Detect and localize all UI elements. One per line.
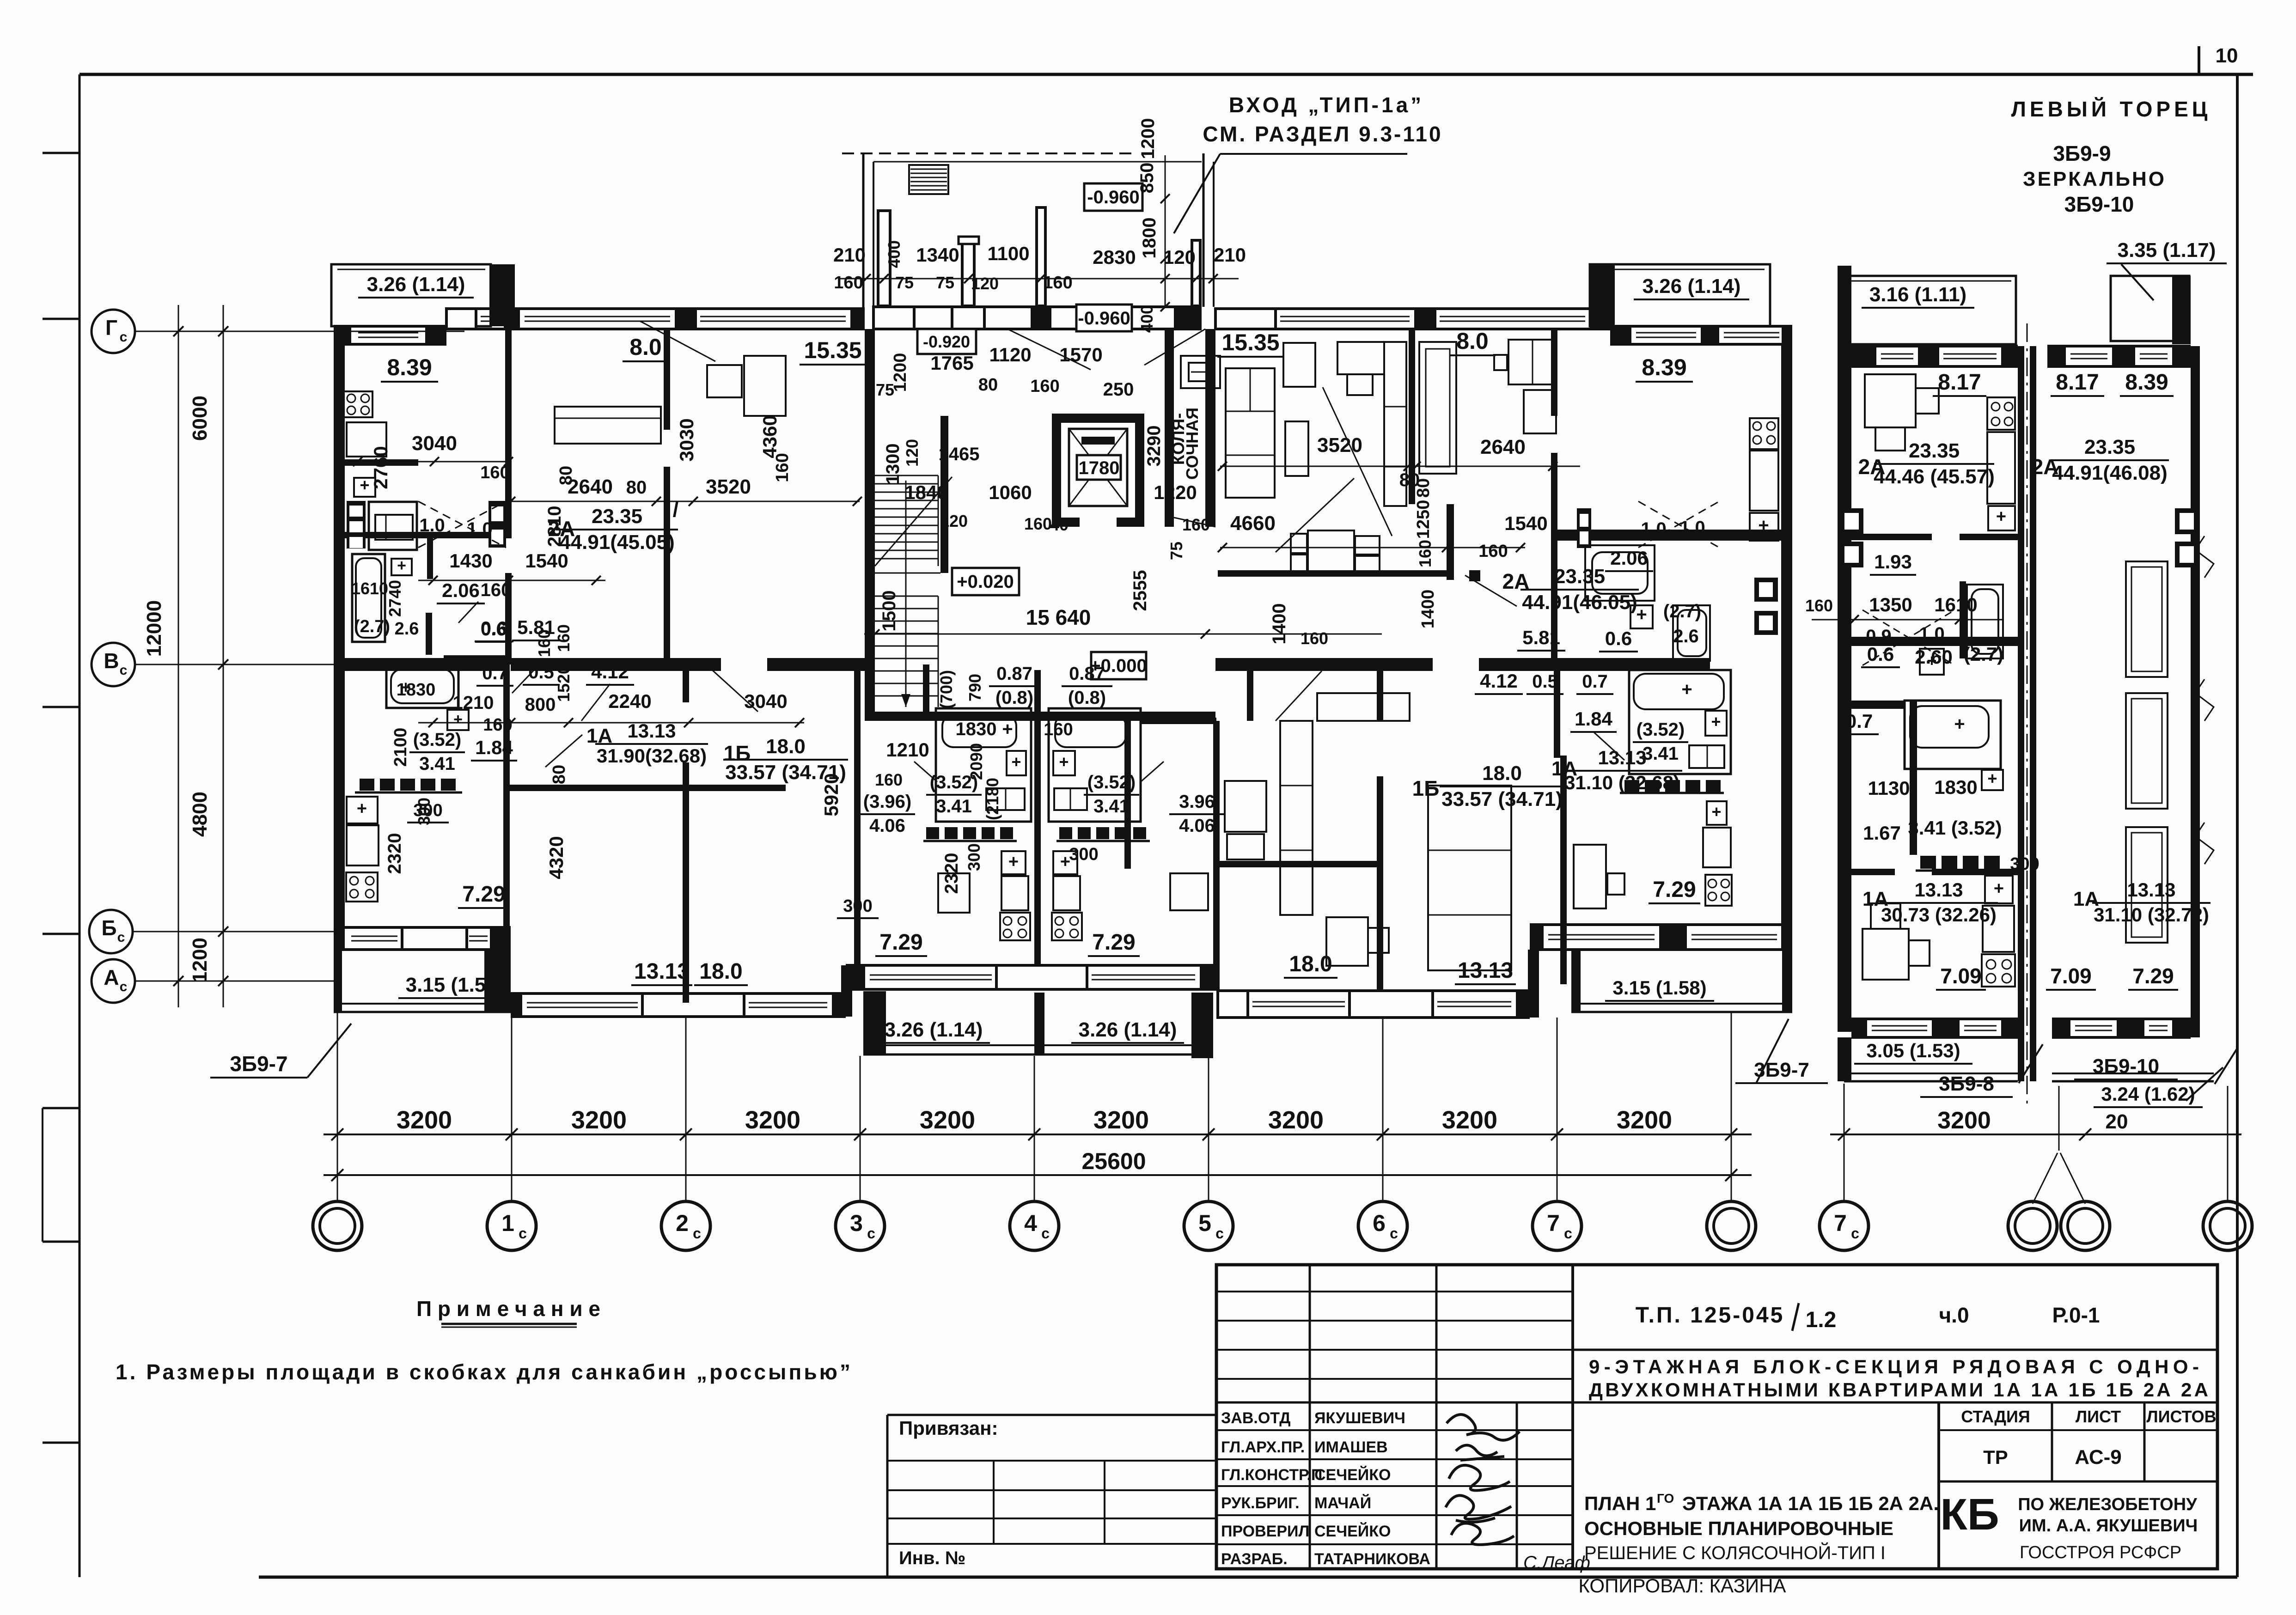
svg-text:(3.96): (3.96) bbox=[863, 792, 912, 812]
svg-text:РАЗРАБ.: РАЗРАБ. bbox=[1221, 1550, 1288, 1568]
svg-text:1120: 1120 bbox=[989, 344, 1031, 366]
svg-text:+: + bbox=[357, 799, 367, 818]
svg-text:160: 160 bbox=[1043, 273, 1072, 293]
svg-text:1.93: 1.93 bbox=[1874, 551, 1912, 573]
svg-text:ТАТАРНИКОВА: ТАТАРНИКОВА bbox=[1314, 1550, 1430, 1568]
svg-text:160: 160 bbox=[480, 463, 509, 482]
svg-text:ОСНОВНЫЕ ПЛАНИРОВОЧНЫЕ: ОСНОВНЫЕ ПЛАНИРОВОЧНЫЕ bbox=[1584, 1517, 1893, 1539]
svg-text:1830: 1830 bbox=[956, 719, 997, 739]
svg-text:80: 80 bbox=[550, 765, 569, 784]
svg-text:160: 160 bbox=[834, 273, 863, 293]
svg-text:23.35: 23.35 bbox=[1909, 439, 1960, 462]
svg-text:Р.0-1: Р.0-1 bbox=[2052, 1303, 2100, 1327]
svg-text:с: с bbox=[867, 1225, 875, 1242]
svg-text:300: 300 bbox=[415, 798, 434, 825]
svg-text:1780: 1780 bbox=[1079, 458, 1120, 478]
svg-text:с: с bbox=[117, 930, 125, 945]
svg-text:300: 300 bbox=[843, 896, 872, 916]
svg-text:+: + bbox=[1011, 752, 1021, 771]
svg-text:ПО ЖЕЛЕЗОБЕТОНУ: ПО ЖЕЛЕЗОБЕТОНУ bbox=[2018, 1495, 2197, 1514]
svg-text:СМ. РАЗДЕЛ 9.3-110: СМ. РАЗДЕЛ 9.3-110 bbox=[1203, 122, 1442, 146]
svg-text:0.7: 0.7 bbox=[1846, 710, 1873, 732]
svg-text:5920: 5920 bbox=[820, 773, 842, 816]
svg-text:(0.8): (0.8) bbox=[1068, 688, 1106, 708]
svg-text:3030: 3030 bbox=[676, 418, 697, 461]
svg-text:+: + bbox=[1954, 714, 1965, 734]
svg-text:1830: 1830 bbox=[397, 680, 436, 700]
svg-text:1220: 1220 bbox=[1154, 481, 1197, 503]
svg-text:0.87: 0.87 bbox=[1069, 664, 1105, 684]
svg-text:31.10 (32.72): 31.10 (32.72) bbox=[2094, 904, 2209, 926]
svg-text:40: 40 bbox=[1050, 515, 1069, 534]
svg-text:ГОССТРОЯ РСФСР: ГОССТРОЯ РСФСР bbox=[2020, 1543, 2181, 1562]
svg-text:5: 5 bbox=[1198, 1210, 1211, 1236]
svg-text:7.29: 7.29 bbox=[879, 930, 922, 955]
svg-text:23.35: 23.35 bbox=[1554, 565, 1605, 588]
svg-text:1210: 1210 bbox=[453, 693, 494, 713]
svg-text:ТР: ТР bbox=[1983, 1446, 2008, 1468]
svg-text:с: с bbox=[693, 1225, 701, 1242]
svg-text:ЛИСТ: ЛИСТ bbox=[2076, 1407, 2121, 1426]
svg-text:3.15 (1.58): 3.15 (1.58) bbox=[406, 974, 504, 996]
svg-text:2830: 2830 bbox=[1093, 246, 1136, 268]
svg-text:СТАДИЯ: СТАДИЯ bbox=[1961, 1407, 2030, 1426]
svg-text:А: А bbox=[104, 965, 119, 989]
svg-text:ЛИСТОВ: ЛИСТОВ bbox=[2146, 1407, 2216, 1426]
svg-text:МАЧАЙ: МАЧАЙ bbox=[1314, 1494, 1371, 1512]
svg-text:2.60: 2.60 bbox=[1915, 646, 1953, 668]
svg-text:2320: 2320 bbox=[941, 853, 962, 894]
svg-text:160: 160 bbox=[1416, 540, 1435, 567]
svg-text:7.29: 7.29 bbox=[462, 882, 505, 907]
svg-text:3200: 3200 bbox=[397, 1106, 452, 1134]
svg-text:(2.7): (2.7) bbox=[1663, 601, 1701, 622]
svg-text:с: с bbox=[120, 663, 128, 678]
svg-text:160: 160 bbox=[483, 715, 512, 735]
svg-text:4: 4 bbox=[1024, 1210, 1037, 1236]
svg-text:+: + bbox=[1008, 852, 1019, 871]
svg-text:3Б9-10: 3Б9-10 bbox=[2064, 192, 2134, 216]
svg-text:1: 1 bbox=[501, 1210, 514, 1236]
svg-text:0.6: 0.6 bbox=[1605, 628, 1632, 649]
svg-text:ЯКУШЕВИЧ: ЯКУШЕВИЧ bbox=[1314, 1409, 1405, 1427]
svg-text:3200: 3200 bbox=[571, 1106, 627, 1134]
svg-text:1Б: 1Б bbox=[1412, 776, 1440, 800]
svg-text:400: 400 bbox=[885, 240, 904, 268]
svg-text:3200: 3200 bbox=[1093, 1106, 1149, 1134]
svg-text:с: с bbox=[120, 979, 128, 994]
svg-text:1570: 1570 bbox=[1059, 344, 1102, 366]
svg-text:РУК.БРИГ.: РУК.БРИГ. bbox=[1221, 1494, 1300, 1512]
svg-text:3.41 (3.52): 3.41 (3.52) bbox=[1908, 817, 2002, 839]
svg-text:160: 160 bbox=[554, 624, 573, 652]
svg-text:ГЛ.АРХ.ПР.: ГЛ.АРХ.ПР. bbox=[1221, 1438, 1305, 1456]
svg-text:РЕШЕНИЕ С КОЛЯСОЧНОЙ-ТИП I: РЕШЕНИЕ С КОЛЯСОЧНОЙ-ТИП I bbox=[1584, 1542, 1886, 1563]
svg-text:1800: 1800 bbox=[1139, 218, 1160, 259]
svg-text:1840: 1840 bbox=[904, 481, 947, 503]
svg-text:1610: 1610 bbox=[351, 579, 388, 598]
svg-text:8.0: 8.0 bbox=[629, 334, 662, 360]
svg-text:КОПИРОВАЛ: КАЗИНА: КОПИРОВАЛ: КАЗИНА bbox=[1578, 1575, 1786, 1597]
svg-text:160: 160 bbox=[773, 453, 792, 482]
svg-text:+: + bbox=[1002, 719, 1013, 739]
svg-text:15 640: 15 640 bbox=[1026, 605, 1091, 629]
svg-text:7.09: 7.09 bbox=[2050, 964, 2092, 988]
svg-text:13.13: 13.13 bbox=[2127, 879, 2175, 901]
svg-text:3520: 3520 bbox=[1317, 434, 1362, 457]
svg-text:8.39: 8.39 bbox=[1642, 354, 1686, 380]
svg-text:3200: 3200 bbox=[1442, 1106, 1497, 1134]
svg-text:3.41: 3.41 bbox=[1093, 796, 1130, 817]
svg-text:3200: 3200 bbox=[1937, 1107, 1991, 1134]
svg-text:4320: 4320 bbox=[545, 836, 567, 879]
svg-text:18.0: 18.0 bbox=[1289, 952, 1332, 976]
svg-text:ПЛАН 1: ПЛАН 1 bbox=[1584, 1493, 1656, 1514]
svg-text:СЕЧЕЙКО: СЕЧЕЙКО bbox=[1314, 1466, 1391, 1484]
svg-text:3.16 (1.11): 3.16 (1.11) bbox=[1869, 283, 1966, 306]
svg-text:18.0: 18.0 bbox=[1482, 762, 1522, 785]
svg-text:2240: 2240 bbox=[608, 690, 651, 712]
svg-text:ВХОД „ТИП-1а”: ВХОД „ТИП-1а” bbox=[1229, 93, 1424, 117]
svg-text:80: 80 bbox=[978, 375, 998, 395]
svg-text:ЛЕВЫЙ ТОРЕЦ: ЛЕВЫЙ ТОРЕЦ bbox=[2011, 97, 2211, 121]
svg-text:13.13: 13.13 bbox=[634, 959, 690, 984]
svg-text:2640: 2640 bbox=[1480, 436, 1526, 458]
svg-text:790: 790 bbox=[965, 674, 984, 701]
svg-text:3.41: 3.41 bbox=[1643, 744, 1679, 764]
svg-text:33.57 (34.71): 33.57 (34.71) bbox=[1441, 788, 1563, 811]
svg-text:7: 7 bbox=[1834, 1210, 1847, 1236]
svg-text:44.46 (45.57): 44.46 (45.57) bbox=[1874, 465, 1995, 488]
svg-text:4800: 4800 bbox=[189, 792, 211, 837]
svg-text:8.17: 8.17 bbox=[1938, 370, 1981, 395]
svg-text:15.35: 15.35 bbox=[804, 337, 861, 363]
svg-text:СОЧНАЯ: СОЧНАЯ bbox=[1183, 408, 1202, 480]
svg-text:400: 400 bbox=[1137, 305, 1156, 333]
svg-text:+: + bbox=[1994, 879, 2004, 898]
svg-text:25600: 25600 bbox=[1081, 1148, 1146, 1174]
svg-text:3.41: 3.41 bbox=[936, 796, 972, 817]
svg-text:2740: 2740 bbox=[385, 580, 404, 617]
svg-text:13.13: 13.13 bbox=[1458, 958, 1513, 983]
svg-text:2.06: 2.06 bbox=[1610, 547, 1648, 569]
svg-text:44.91(46.05): 44.91(46.05) bbox=[1522, 591, 1637, 614]
svg-text:300: 300 bbox=[965, 843, 983, 871]
svg-text:18.0: 18.0 bbox=[766, 735, 806, 758]
svg-text:4360: 4360 bbox=[759, 415, 781, 458]
svg-text:КБ: КБ bbox=[1940, 1490, 1999, 1539]
svg-text:Привязан:: Привязан: bbox=[899, 1417, 998, 1439]
svg-text:4.06: 4.06 bbox=[869, 816, 905, 836]
svg-text:160: 160 bbox=[875, 770, 903, 789]
svg-text:1100: 1100 bbox=[987, 243, 1029, 264]
svg-text:3: 3 bbox=[850, 1210, 863, 1236]
svg-text:1.2: 1.2 bbox=[1806, 1308, 1837, 1332]
svg-text:13.13: 13.13 bbox=[627, 720, 676, 742]
svg-text:3.26 (1.14): 3.26 (1.14) bbox=[367, 273, 465, 296]
svg-text:с: с bbox=[1851, 1225, 1859, 1242]
svg-text:с: с bbox=[120, 329, 128, 345]
svg-text:ЗЕРКАЛЬНО: ЗЕРКАЛЬНО bbox=[2023, 168, 2166, 190]
svg-text:160: 160 bbox=[535, 629, 554, 657]
svg-text:1400: 1400 bbox=[1418, 590, 1438, 629]
svg-text:СЕЧЕЙКО: СЕЧЕЙКО bbox=[1314, 1522, 1391, 1540]
svg-text:0.87: 0.87 bbox=[996, 664, 1032, 684]
svg-text:7.29: 7.29 bbox=[2132, 964, 2174, 988]
svg-text:8.39: 8.39 bbox=[2125, 370, 2168, 395]
svg-text:Б: Б bbox=[101, 916, 116, 940]
svg-text:3.26 (1.14): 3.26 (1.14) bbox=[885, 1018, 983, 1041]
svg-text:160: 160 bbox=[1478, 542, 1508, 561]
svg-text:Т.П. 125-045: Т.П. 125-045 bbox=[1636, 1303, 1785, 1328]
svg-text:ИМ. А.А. ЯКУШЕВИЧ: ИМ. А.А. ЯКУШЕВИЧ bbox=[2019, 1516, 2198, 1536]
svg-text:+: + bbox=[1758, 515, 1769, 536]
svg-text:1540: 1540 bbox=[525, 550, 568, 572]
svg-text:2760: 2760 bbox=[370, 446, 391, 489]
svg-text:1.84: 1.84 bbox=[475, 737, 513, 758]
svg-text:3.24 (1.62): 3.24 (1.62) bbox=[2101, 1083, 2195, 1105]
svg-text:75: 75 bbox=[895, 273, 914, 292]
svg-text:6: 6 bbox=[1373, 1210, 1386, 1236]
svg-text:80: 80 bbox=[626, 477, 647, 498]
svg-text:120: 120 bbox=[903, 439, 922, 467]
svg-text:3290: 3290 bbox=[1144, 426, 1164, 467]
svg-text:250: 250 bbox=[1103, 379, 1134, 400]
svg-text:44.91(45.05): 44.91(45.05) bbox=[559, 531, 675, 554]
svg-text:1А: 1А bbox=[1551, 757, 1577, 780]
svg-text:160: 160 bbox=[1301, 629, 1328, 648]
svg-text:+: + bbox=[1987, 769, 1997, 788]
svg-text:1540: 1540 bbox=[1504, 512, 1547, 534]
svg-text:5.81: 5.81 bbox=[1522, 627, 1560, 648]
svg-text:7.09: 7.09 bbox=[1940, 964, 1982, 988]
svg-text:/: / bbox=[673, 497, 679, 521]
svg-text:-0.960: -0.960 bbox=[1078, 308, 1130, 329]
svg-text:44.91(46.08): 44.91(46.08) bbox=[2052, 462, 2168, 484]
svg-text:АС-9: АС-9 bbox=[2075, 1446, 2122, 1469]
svg-text:3520: 3520 bbox=[706, 475, 751, 498]
svg-text:2.6: 2.6 bbox=[395, 619, 419, 639]
svg-text:300: 300 bbox=[1069, 845, 1098, 864]
svg-text:1500: 1500 bbox=[879, 591, 899, 632]
svg-text:2: 2 bbox=[676, 1210, 689, 1236]
svg-text:ГЛ.КОНСТР.П: ГЛ.КОНСТР.П bbox=[1221, 1466, 1322, 1484]
svg-text:160: 160 bbox=[1030, 377, 1059, 396]
svg-text:23.35: 23.35 bbox=[2084, 436, 2135, 458]
svg-text:с: с bbox=[519, 1225, 527, 1242]
svg-text:(2.7): (2.7) bbox=[1964, 643, 2003, 665]
svg-text:7: 7 bbox=[1547, 1210, 1560, 1236]
svg-text:(3.52): (3.52) bbox=[1637, 719, 1685, 740]
svg-text:3200: 3200 bbox=[1617, 1106, 1672, 1134]
svg-text:15.35: 15.35 bbox=[1221, 329, 1279, 355]
svg-text:3.26 (1.14): 3.26 (1.14) bbox=[1643, 275, 1741, 298]
svg-text:30.73 (32.26): 30.73 (32.26) bbox=[1881, 904, 1997, 926]
svg-text:23.35: 23.35 bbox=[592, 505, 642, 528]
svg-text:1400: 1400 bbox=[1269, 603, 1289, 645]
svg-text:1520: 1520 bbox=[554, 665, 573, 702]
svg-text:1340: 1340 bbox=[916, 244, 959, 266]
svg-text:+: + bbox=[360, 475, 369, 494]
svg-text:1.0: 1.0 bbox=[1679, 518, 1705, 538]
svg-text:1. Размеры площади в скобк: 1. Размеры площади в скобках для санкаби… bbox=[116, 1360, 850, 1384]
svg-text:ПРОВЕРИЛ: ПРОВЕРИЛ bbox=[1221, 1523, 1309, 1540]
svg-text:С.Леаф: С.Леаф bbox=[1523, 1553, 1590, 1573]
svg-text:3.96: 3.96 bbox=[1179, 792, 1215, 812]
svg-text:0.7: 0.7 bbox=[1582, 671, 1608, 692]
svg-text:2090: 2090 bbox=[967, 743, 986, 780]
svg-text:-0.920: -0.920 bbox=[923, 332, 970, 351]
svg-text:31.90(32.68): 31.90(32.68) bbox=[597, 745, 707, 767]
svg-text:1.0: 1.0 bbox=[467, 519, 493, 539]
svg-text:75: 75 bbox=[936, 273, 954, 292]
svg-text:6000: 6000 bbox=[189, 396, 211, 441]
svg-text:2100: 2100 bbox=[391, 728, 410, 767]
svg-text:В: В bbox=[104, 649, 119, 673]
svg-text:+0.020: +0.020 bbox=[957, 572, 1014, 592]
svg-text:(2.7): (2.7) bbox=[354, 617, 390, 636]
svg-text:3.41: 3.41 bbox=[419, 754, 455, 774]
svg-text:Инв. №: Инв. № bbox=[899, 1548, 965, 1568]
svg-text:160: 160 bbox=[1024, 514, 1052, 533]
svg-text:1.67: 1.67 bbox=[1863, 822, 1901, 844]
svg-text:1350: 1350 bbox=[1869, 594, 1912, 616]
svg-text:1.0: 1.0 bbox=[419, 515, 445, 536]
svg-text:2.06: 2.06 bbox=[442, 579, 480, 601]
svg-text:300: 300 bbox=[2010, 854, 2039, 874]
svg-text:160: 160 bbox=[1805, 596, 1833, 615]
svg-text:4.06: 4.06 bbox=[1179, 816, 1215, 836]
svg-text:Г: Г bbox=[105, 316, 117, 340]
svg-text:4660: 4660 bbox=[1230, 512, 1276, 535]
svg-text:-0.960: -0.960 bbox=[1087, 187, 1139, 207]
svg-text:2А: 2А bbox=[548, 517, 575, 541]
svg-text:с: с bbox=[1564, 1225, 1572, 1242]
svg-text:3200: 3200 bbox=[745, 1106, 800, 1134]
svg-text:3Б9-8: 3Б9-8 bbox=[1939, 1073, 1994, 1095]
svg-text:0.5: 0.5 bbox=[1532, 671, 1558, 692]
svg-text:0.6: 0.6 bbox=[1867, 643, 1894, 665]
svg-text:0.6: 0.6 bbox=[481, 619, 507, 640]
svg-text:+: + bbox=[397, 557, 406, 574]
svg-text:210: 210 bbox=[833, 244, 866, 266]
svg-text:210: 210 bbox=[1214, 244, 1246, 266]
svg-text:с: с bbox=[1215, 1225, 1224, 1242]
svg-text:120: 120 bbox=[940, 512, 968, 530]
svg-text:1210: 1210 bbox=[886, 739, 929, 761]
svg-text:1200: 1200 bbox=[1138, 118, 1158, 159]
svg-text:31.10 (32.68): 31.10 (32.68) bbox=[1564, 772, 1680, 793]
svg-text:+: + bbox=[453, 711, 463, 728]
svg-text:1300: 1300 bbox=[883, 444, 903, 485]
svg-text:1830: 1830 bbox=[1934, 776, 1977, 798]
svg-text:4.12: 4.12 bbox=[1480, 670, 1518, 692]
svg-text:+: + bbox=[1711, 712, 1721, 731]
svg-text:1465: 1465 bbox=[939, 444, 980, 464]
svg-text:3.26 (1.14): 3.26 (1.14) bbox=[1079, 1018, 1177, 1041]
svg-text:ч.0: ч.0 bbox=[1939, 1303, 1969, 1327]
svg-text:8.17: 8.17 bbox=[2056, 370, 2099, 395]
svg-text:160: 160 bbox=[1182, 515, 1210, 534]
svg-text:8.39: 8.39 bbox=[387, 354, 432, 380]
svg-text:1130: 1130 bbox=[1868, 777, 1910, 799]
svg-text:850: 850 bbox=[1137, 163, 1157, 194]
svg-text:с: с bbox=[1390, 1225, 1398, 1242]
svg-text:+: + bbox=[1681, 679, 1692, 700]
svg-text:3.05 (1.53): 3.05 (1.53) bbox=[1866, 1040, 1960, 1061]
svg-text:9-ЭТАЖНАЯ БЛОК-СЕКЦИЯ РЯДО: 9-ЭТАЖНАЯ БЛОК-СЕКЦИЯ РЯДОВАЯ С ОДНО- bbox=[1589, 1356, 2199, 1377]
svg-text:2320: 2320 bbox=[385, 833, 405, 874]
svg-text:120: 120 bbox=[971, 274, 999, 293]
svg-text:1060: 1060 bbox=[989, 481, 1032, 503]
svg-text:3Б9-7: 3Б9-7 bbox=[230, 1052, 287, 1076]
svg-text:3.15 (1.58): 3.15 (1.58) bbox=[1612, 977, 1706, 999]
svg-text:2555: 2555 bbox=[1130, 570, 1150, 611]
svg-text:П р и м е ч а н и е: П р и м е ч а н и е bbox=[416, 1297, 600, 1321]
svg-text:160: 160 bbox=[481, 580, 512, 600]
svg-text:10: 10 bbox=[2216, 44, 2238, 67]
svg-text:1765: 1765 bbox=[930, 352, 973, 374]
svg-text:2.6: 2.6 bbox=[1673, 626, 1699, 646]
svg-text:800: 800 bbox=[525, 695, 556, 715]
svg-text:ЭТАЖА 1А 1А 1Б 1Б 2А 2А.: ЭТАЖА 1А 1А 1Б 1Б 2А 2А. bbox=[1682, 1493, 1939, 1514]
svg-text:+: + bbox=[1711, 802, 1721, 821]
svg-text:+: + bbox=[1059, 752, 1069, 771]
svg-text:8.0: 8.0 bbox=[1456, 328, 1489, 354]
svg-text:1.84: 1.84 bbox=[1575, 708, 1612, 730]
svg-text:160: 160 bbox=[1044, 720, 1073, 739]
svg-text:1.0: 1.0 bbox=[1641, 519, 1667, 539]
svg-text:1250: 1250 bbox=[1414, 500, 1433, 539]
svg-text:4.12: 4.12 bbox=[591, 661, 629, 683]
svg-text:ИМАШЕВ: ИМАШЕВ bbox=[1314, 1438, 1388, 1456]
svg-text:75: 75 bbox=[1167, 542, 1186, 560]
svg-text:3200: 3200 bbox=[1268, 1106, 1324, 1134]
svg-text:(700): (700) bbox=[937, 670, 956, 709]
svg-text:1610: 1610 bbox=[1934, 594, 1977, 616]
svg-text:0.7: 0.7 bbox=[482, 663, 508, 683]
svg-text:120: 120 bbox=[1163, 246, 1196, 268]
svg-text:80: 80 bbox=[556, 466, 576, 485]
svg-text:1430: 1430 bbox=[449, 550, 492, 572]
svg-text:3040: 3040 bbox=[412, 432, 457, 455]
svg-text:3040: 3040 bbox=[744, 690, 787, 712]
svg-text:1.0: 1.0 bbox=[1919, 624, 1945, 644]
svg-text:7.29: 7.29 bbox=[1653, 878, 1696, 902]
svg-text:3Б9-9: 3Б9-9 bbox=[2053, 141, 2111, 165]
svg-text:7.29: 7.29 bbox=[1092, 930, 1135, 955]
svg-text:+: + bbox=[1996, 507, 2006, 526]
svg-text:(3.52): (3.52) bbox=[1087, 772, 1136, 792]
svg-text:13.13: 13.13 bbox=[1914, 879, 1963, 901]
svg-text:(0.8): (0.8) bbox=[995, 688, 1033, 708]
svg-text:(3.52): (3.52) bbox=[413, 730, 462, 750]
svg-text:75: 75 bbox=[876, 380, 894, 399]
svg-text:80: 80 bbox=[1414, 478, 1433, 498]
svg-text:18.0: 18.0 bbox=[699, 959, 742, 984]
svg-text:3.35 (1.17): 3.35 (1.17) bbox=[2118, 239, 2216, 262]
svg-text:1200: 1200 bbox=[189, 938, 211, 983]
svg-text:12000: 12000 bbox=[143, 600, 165, 657]
svg-text:3200: 3200 bbox=[920, 1106, 975, 1134]
svg-text:ЗАВ.ОТД: ЗАВ.ОТД bbox=[1221, 1409, 1290, 1427]
svg-text:ГО: ГО bbox=[1657, 1491, 1674, 1505]
svg-text:с: с bbox=[1041, 1225, 1050, 1242]
svg-text:+: + bbox=[1636, 604, 1647, 625]
svg-text:(2180: (2180 bbox=[983, 778, 1002, 820]
svg-text:20: 20 bbox=[2106, 1110, 2128, 1133]
